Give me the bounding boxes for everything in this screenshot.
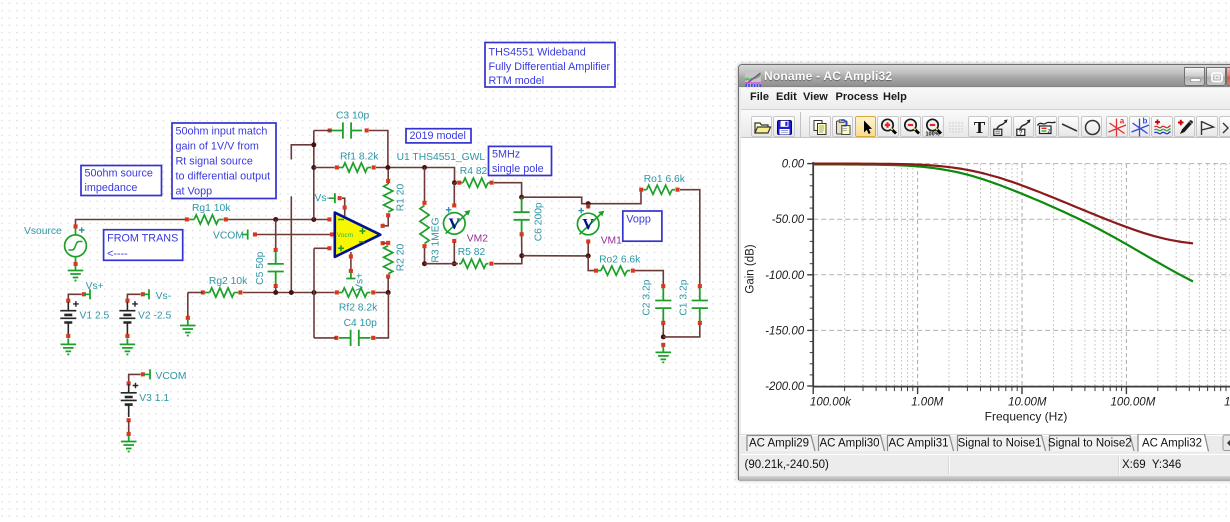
svg-text:AC Ampli31: AC Ampli31 [888,438,948,450]
svg-text:AC Ampli29: AC Ampli29 [749,438,809,450]
resistor Ro2 6.6k [601,266,627,275]
pin R1 top [386,179,390,183]
svg-text:U1 THS4551_GWL: U1 THS4551_GWL [397,152,486,163]
node junction Rf1 left [311,165,316,170]
label V3 1.1 [139,393,169,404]
wire Rg2 to feedback row [243,292,335,294]
svg-text:100.00k: 100.00k [810,397,852,409]
wire C5 bottom [275,288,277,293]
wire Ro1 to C1 column [680,190,700,285]
wire Ro2 to C2 [635,271,663,285]
wire Rf1 row to R4 column [376,168,455,183]
pin op-amp noninverting input [327,246,331,250]
svg-text:Vs-: Vs- [315,193,330,204]
pin Ro1 right [676,188,680,192]
label R1 20 [396,183,407,211]
svg-text:single pole: single pole [492,163,544,175]
svg-text:C5 50p: C5 50p [255,251,266,284]
node junction +input/C4 [312,290,317,295]
svg-text:Signal to Noise1: Signal to Noise1 [958,438,1042,450]
pin V3 top [127,381,131,385]
node junction R4/VM2 [452,180,457,185]
plus mark V2 [132,301,138,307]
pin C5 bottom [274,284,278,288]
label C4 10p [344,318,377,329]
wire stub upper branch [291,145,314,160]
svg-text:50ohm input match: 50ohm input match [176,126,268,138]
pin Rg2 ground [186,316,190,320]
pin Vsource bottom [74,262,78,266]
svg-text:impedance: impedance [85,182,138,194]
pin V1 bottom [66,334,70,338]
ground below C2 [656,346,672,362]
svg-text:0.00: 0.00 [782,159,805,171]
node junction R2/Rf2/C4 [386,290,391,295]
pin Vs- terminal [338,196,342,200]
wire R2 bottom to feedback row [387,278,389,293]
pin V3 bottom [127,432,131,436]
pin op-amp inverting input [327,217,331,221]
pin Ro2 right [631,269,635,273]
label VM1 [601,235,622,246]
voltmeter VM1 [577,211,604,235]
wire VM2 top [453,183,455,204]
label Rf1 8.2k [340,151,379,162]
svg-text:R2 20: R2 20 [396,243,407,271]
pin R3 bottom [422,244,426,248]
pin Rf1 left [335,165,339,169]
node junction C5 bottom [273,290,278,295]
svg-text:R4 82: R4 82 [460,166,488,177]
pin C2 bottom [661,321,665,325]
wire Rg1 to op-amp inverting input [228,219,330,221]
wire C5 top [275,220,277,249]
ground below V3 [121,436,137,452]
ground below Rg2 [180,320,196,336]
wire op-amp out+ to R2 [383,242,388,244]
wire C6 bottom to VM1 bottom row [522,255,588,257]
resistor Ro1 6.6k [647,185,672,194]
svg-text:Frequency (Hz): Frequency (Hz) [985,410,1068,424]
pin V1 terminal [82,292,86,296]
svg-text:1.00M: 1.00M [911,397,943,409]
wire V1 top [68,294,81,302]
pin Vsource top [74,224,78,228]
pin Rg1 right [224,217,228,221]
label Vs- node [315,193,330,204]
node junction VM2/R5 [452,261,457,266]
svg-text:<----: <---- [107,248,128,260]
label Ro2 6.6k [599,255,641,266]
svg-text:100.00M: 100.00M [1111,397,1156,409]
label V1 2.5 [80,310,110,321]
wire R3 to R5 row [425,263,459,265]
wire C4 left [314,337,336,339]
wire R3 top [424,168,426,204]
capacitor C2 3.2p [655,288,671,322]
pin Vs+ terminal [349,269,353,273]
wire C4 right up to R2 junction [376,293,389,338]
voltmeter VM2 [444,210,471,234]
wire op-amp +input column [313,248,315,338]
capacitor C6 200p [514,197,530,233]
wire VM1 top lead [587,204,589,208]
label R4 82 [460,166,488,177]
pin V1 top [66,299,70,303]
capacitor C3 10p [332,122,362,138]
terminal Vs+ power [346,273,355,279]
terminal Vs- source [143,289,149,299]
label R3 1MEG [431,217,442,262]
svg-text:R5 82: R5 82 [458,247,486,258]
label Rf2 8.2k [339,303,378,314]
svg-text:-150.00: -150.00 [765,325,805,337]
svg-text:Fully Differential Amplifier: Fully Differential Amplifier [489,61,611,73]
ground below Vsource [68,265,84,281]
wire Vs- to op-amp top [342,198,345,216]
svg-text:at Vopp: at Vopp [176,186,213,198]
wire C6 to VM1 top [522,190,641,204]
svg-text:Gain (dB): Gain (dB) [745,244,757,293]
label Vsource [24,226,62,237]
pin op-amp Vocm input [330,232,334,236]
pin C3 right [365,128,369,132]
pin VM2 top [452,203,456,207]
pin C3 left [328,128,332,132]
label VCOM node [213,230,244,241]
node junction branch bottom [289,290,294,295]
wire R1 bottom to op-amp out- [383,217,388,226]
note box FROM TRANS [104,230,183,261]
note box 5MHz single pole [489,146,552,175]
resistor R5 82 [461,259,486,268]
pin C4 left [334,336,338,340]
svg-text:1.00G: 1.00G [1224,397,1230,409]
pin R2 bottom [386,274,390,278]
svg-text:R3 1MEG: R3 1MEG [431,217,442,262]
capacitor C5 50p [268,252,284,285]
svg-text:THS4551 Wideband: THS4551 Wideband [489,47,586,59]
wire Rf1 left [314,167,335,169]
node junction Rg1/Rf1 column [311,217,316,222]
pin Rf2 left [335,290,339,294]
op-amp U1 THS4551 [335,213,381,257]
label Rg1 10k [192,203,231,214]
pin op-amp power bottom [349,254,353,258]
svg-text:Rg2 10k: Rg2 10k [209,276,248,287]
wire V3 top [129,374,141,382]
resistor R2 20 [384,246,393,274]
pin C5 top [274,248,278,252]
svg-text:Vsource: Vsource [24,226,62,237]
wire ground stub Rg2 row [188,292,203,294]
pin Ro2 left [594,269,598,273]
pin VM1 bottom [586,239,590,243]
pin VCOM [253,232,257,236]
pin R2 top [386,241,390,245]
pin V3 mid [127,418,131,422]
node junction R3/R5 [422,261,427,266]
box Vopp [623,211,662,241]
label C6 200p [533,202,544,241]
wire C3 right down to Rf1 row [369,131,388,168]
wire column C3/Rf1 to inverting input [313,131,315,220]
note box 50ohm source impedance [81,166,162,196]
svg-text:Vocm: Vocm [337,232,353,239]
pin op-amp Vs- power [343,205,347,209]
label R5 82 [458,247,486,258]
pin C4 right [371,336,375,340]
svg-text:Ro2 6.6k: Ro2 6.6k [599,255,641,266]
svg-text:-100.00: -100.00 [765,270,805,282]
battery V2 -2.5 [119,311,135,323]
pin R5 right [489,262,493,266]
svg-text:C6 200p: C6 200p [533,202,544,241]
svg-text:-50.00: -50.00 [772,214,805,226]
wire C2 bottom [662,325,664,337]
wire C6 bottom [521,236,523,256]
svg-text:Vs-: Vs- [156,291,171,302]
svg-text:Signal to Noise2: Signal to Noise2 [1048,438,1132,450]
svg-text:C4 10p: C4 10p [344,318,377,329]
svg-text:-200.00: -200.00 [765,381,805,393]
wire vertical branch to lower row [290,196,292,292]
svg-text:VM2: VM2 [467,233,488,244]
resistor R3 1MEG [420,206,429,244]
svg-text:to differential output: to differential output [176,171,271,183]
pin V2 bottom [125,334,129,338]
node junction C6 top [519,195,524,200]
svg-text:gain of 1V/V from: gain of 1V/V from [176,141,259,153]
node junction C6 bottom [519,253,524,258]
label R2 20 [396,243,407,271]
plus mark noninverting input [338,245,344,251]
label VCOM source node [156,371,187,382]
note box 2019 model [406,129,471,143]
pin R1 bottom [386,213,390,217]
svg-text:V: V [449,216,461,233]
svg-text:Rt signal source: Rt signal source [176,156,253,168]
svg-text:Rf2 8.2k: Rf2 8.2k [339,303,378,314]
voltage source Vsource [65,228,87,263]
svg-text:VM1: VM1 [601,235,622,246]
pin Rg1 left [185,217,189,221]
plus mark of Vsource [79,227,85,233]
resistor R4 82 [463,178,488,187]
label VM2 [467,233,488,244]
pin V3 terminal [141,372,145,376]
svg-text:V2 -2.5: V2 -2.5 [138,310,171,321]
wire VM1 junction down to Ro2 [588,256,594,271]
svg-text:10.00M: 10.00M [1008,397,1047,409]
node junction stub [311,142,316,147]
wire R4 to C6 [494,183,522,198]
plus mark VM1 [578,208,584,214]
svg-text:50ohm source: 50ohm source [85,168,153,180]
pin Rf2 right [371,290,375,294]
svg-text:C3 10p: C3 10p [336,111,369,122]
plus mark V1 [73,301,79,307]
node junction Rf1/R3 [422,165,427,170]
svg-text:V1 2.5: V1 2.5 [80,310,110,321]
resistor R1 20 [384,184,393,212]
svg-text:RTM model: RTM model [489,75,545,87]
battery V3 1.1 [121,393,137,405]
terminal VCOM source [144,369,150,379]
svg-text:VCOM: VCOM [156,371,187,382]
resistor Rf1 8.2k [343,163,368,172]
wire Rg2 left down to ground [187,293,189,317]
pin Ro1 left [639,188,643,192]
wire R5 to C6 bottom junction [494,256,522,264]
svg-text:AC Ampli32: AC Ampli32 [1142,438,1202,450]
terminal Vs- [329,193,335,203]
pin C1 top [698,284,702,288]
svg-text:V3 1.1: V3 1.1 [139,393,169,404]
svg-text:C2 3.2p: C2 3.2p [642,279,653,315]
svg-text:2019 model: 2019 model [410,130,466,142]
terminal Vs+ [84,289,90,299]
wire op-amp Vs+ power down [350,252,352,272]
label Vs- node [156,291,171,302]
wire VM1 bottom [587,243,589,256]
pin C1 bottom [698,321,702,325]
pin V2 top [125,299,129,303]
node junction Rf1/R1 [385,165,390,170]
node junction VM1/Ro2 [586,253,591,258]
svg-text:Vopp: Vopp [626,214,651,226]
resistor Rf2 8.2k [342,288,367,297]
pin VM2 bottom [452,239,456,243]
svg-text:R1 20: R1 20 [396,183,407,211]
svg-text:C1 3.2p: C1 3.2p [679,279,690,315]
wire VM2 bottom [453,243,455,264]
svg-text:Rf1 8.2k: Rf1 8.2k [340,151,379,162]
minus mark output [359,241,364,243]
wire R4 left stub [455,182,458,184]
pin C6 bottom [520,232,524,236]
pin Rg2 right [238,290,242,294]
svg-text:VCOM: VCOM [213,230,244,241]
label C5 50p [255,251,266,284]
label C3 10p [336,111,369,122]
pin C2 top [661,284,665,288]
plus mark output [360,228,366,234]
pin Rf1 right [372,165,376,169]
svg-text:V: V [582,217,594,234]
svg-text:5MHz: 5MHz [492,148,520,160]
note box THS4551 Wideband [485,43,615,88]
node junction VM1 top [586,201,591,206]
wire Vsource top to Rg1 [76,220,186,226]
svg-text:Ro1 6.6k: Ro1 6.6k [644,174,686,185]
wire C3 left [314,130,332,132]
wire VCOM to op-amp Vocm input [257,234,331,236]
pin ground output [661,343,665,347]
pin op-amp output plus [381,241,385,245]
label C2 3.2p [642,279,653,315]
label V2 -2.5 [138,310,171,321]
pin VM1 top [586,204,590,208]
pin op-amp output minus [381,224,385,228]
wire V3 to ground [128,421,130,433]
label Vs+ node [86,281,104,292]
resistor Rg2 10k [210,288,235,297]
label U1 THS4551_GWL [397,152,486,163]
label Vs+ rotated [355,273,366,291]
wire +input to op-amp [314,247,330,249]
wire V2 top [127,294,140,302]
pin R4 right [490,181,494,185]
wire C1 bottom to junction [663,325,700,337]
ground below V2 [120,338,136,354]
note box 50ohm input match [172,123,276,199]
label Ro1 6.6k [644,174,686,185]
ground below V1 [61,338,77,354]
plus mark V3 [133,383,139,389]
label C1 3.2p [679,279,690,315]
svg-text:Rg1 10k: Rg1 10k [192,203,231,214]
node junction C2/C1 ground [661,334,666,339]
pin V2 terminal [141,292,145,296]
terminal VCOM [242,230,248,240]
svg-text:Vs+: Vs+ [86,281,104,292]
resistor Rg1 10k [194,215,218,224]
capacitor C1 3.2p [692,288,708,322]
pin R3 top [422,201,426,205]
wire Rf2 right [376,292,389,294]
capacitor C4 10p [339,330,371,346]
plus mark VM2 [446,207,452,213]
pin R4 left [457,181,461,185]
wire R3 bottom [424,248,426,264]
minus mark inverting input [338,219,344,221]
svg-text:AC Ampli30: AC Ampli30 [819,438,879,450]
pin Rg2 left [201,290,205,294]
label Rg2 10k [209,276,248,287]
svg-text:FROM TRANS: FROM TRANS [107,233,178,245]
battery V1 2.5 [60,311,76,323]
node junction Rg1/C5 [273,217,278,222]
